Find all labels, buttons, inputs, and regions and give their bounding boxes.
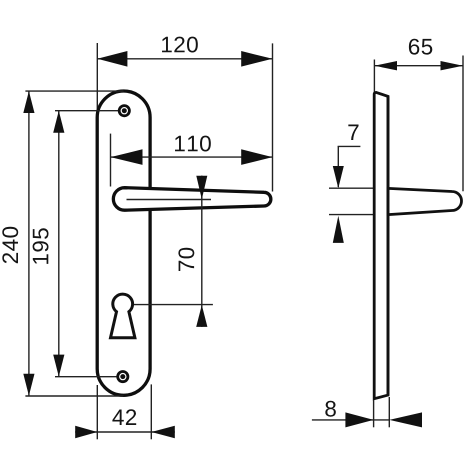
dim 8 left arrow [345, 412, 373, 427]
dim 65 left arrow [374, 61, 397, 70]
dim 120 label [162, 37, 198, 53]
dim 195 line [58, 111, 60, 377]
dim 240 top arrow [23, 91, 34, 113]
dim 240 label [2, 227, 18, 263]
dim 240 bottom arrow [23, 374, 34, 396]
dim 195 top arrow [53, 111, 64, 133]
dim 8 label [325, 401, 336, 417]
dim 110 left extension line [110, 134, 112, 187]
dim 65 right arrow [441, 61, 464, 70]
dim 7 leader line [337, 146, 339, 187]
dim 7 bottom arrow [333, 216, 344, 243]
dim 42 line [75, 431, 175, 433]
dim 42 label [112, 409, 136, 425]
dim 120 / 110 right extension line [272, 43, 274, 191]
dim 240 bottom extension line [25, 395, 123, 397]
dim 120 left arrow [97, 51, 127, 67]
dim 195 top extension line [55, 110, 124, 112]
dim 120 left extension line [96, 43, 98, 120]
plate outline (front view) [97, 91, 150, 395]
dim 7 top extension line [329, 187, 388, 189]
dim 7 leader bar [338, 145, 361, 147]
dim 70 bottom arrow [196, 305, 207, 327]
dim 65 label [409, 39, 432, 55]
handle lever (front view) [113, 188, 271, 211]
dim 240 top extension line [25, 90, 123, 92]
dim 42 left arrow [75, 426, 97, 439]
dim 240 line [28, 91, 30, 396]
dim 70 top arrow [196, 176, 207, 199]
dim 195 bottom arrow [53, 355, 64, 377]
dim 70 label [178, 248, 194, 271]
dim 65 line [374, 65, 463, 67]
dim 8 left extension line [373, 400, 375, 427]
top screw [119, 106, 129, 116]
side handle [388, 188, 462, 214]
dim 195 bottom extension line [55, 376, 123, 378]
bottom screw dot [120, 374, 125, 379]
top screw dot [122, 108, 127, 113]
dim 42 left extension line [96, 385, 98, 439]
dim 195 label [33, 228, 49, 264]
dim 8 line [312, 419, 389, 421]
dim 120 right arrow [241, 51, 272, 67]
dim 7 bottom extension line [329, 214, 390, 216]
dim 120 line [97, 58, 272, 60]
dim 42 right extension line [150, 384, 152, 439]
keyhole [111, 294, 135, 338]
dim 42 right arrow [151, 426, 175, 439]
dim 7 label [348, 125, 358, 141]
dim 110 label [175, 136, 211, 152]
dim 7 top arrow [333, 166, 344, 188]
keyhole reference line [128, 304, 213, 306]
dim 8 right extension line [388, 397, 390, 427]
handle centerline detail [127, 199, 212, 201]
dim 65 left extension line [373, 60, 375, 93]
dim 110 line [111, 156, 273, 158]
dim 8 right arrow [389, 412, 422, 427]
side plate strip [374, 92, 388, 398]
dim 70 line [201, 176, 203, 327]
bottom screw [118, 372, 128, 382]
dim 110 left arrow [111, 149, 143, 165]
side plate right edge over handle [387, 96, 390, 395]
dim 110 right arrow [241, 149, 272, 165]
dim 65 right extension line [462, 56, 464, 192]
